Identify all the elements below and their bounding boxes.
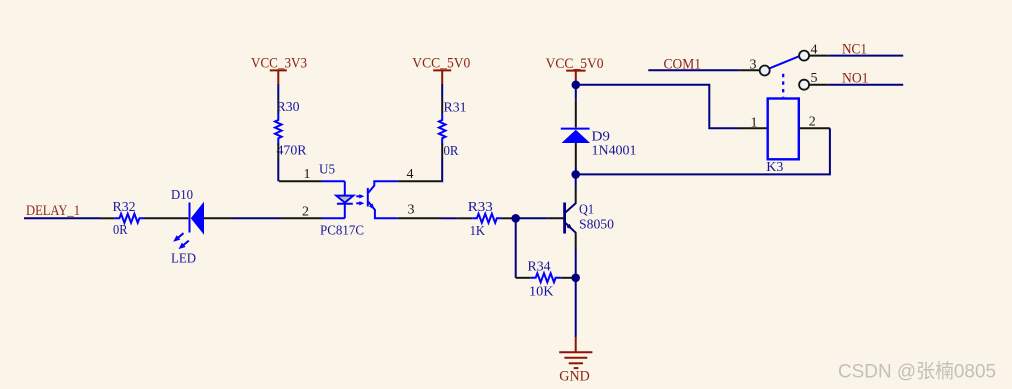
- svg-text:LED: LED: [171, 251, 196, 266]
- svg-text:S8050: S8050: [579, 218, 614, 233]
- svg-text:470R: 470R: [277, 144, 308, 159]
- svg-text:4: 4: [407, 167, 414, 182]
- switch blade: [770, 56, 800, 68]
- wire VCC_3V3 to R30: [277, 84, 279, 99]
- svg-text:VCC_5V0: VCC_5V0: [412, 55, 470, 71]
- LED D10 emission arrows: [178, 233, 184, 238]
- svg-text:2: 2: [302, 205, 309, 220]
- svg-text:0R: 0R: [113, 223, 128, 238]
- wire VCC_5V0 to R31: [441, 84, 443, 99]
- svg-text:3: 3: [408, 203, 415, 218]
- svg-text:R34: R34: [528, 260, 551, 275]
- wire VCC junction to relay pin1: [576, 85, 739, 128]
- wire D10 to U5 pin2: [233, 217, 280, 219]
- svg-text:VCC_5V0: VCC_5V0: [546, 56, 604, 72]
- relay pin 5: [809, 84, 828, 86]
- wire U5 pin4 to R31: [441, 159, 442, 182]
- resistor R34: [516, 277, 531, 279]
- svg-text:PC817C: PC817C: [320, 224, 364, 239]
- relay K3 pin 2: [799, 127, 830, 129]
- relay K3 pin 1: [739, 127, 768, 129]
- relay pin 4: [809, 55, 828, 57]
- svg-text:1: 1: [751, 116, 758, 131]
- svg-text:VCC_3V3: VCC_3V3: [251, 55, 307, 71]
- node base junction: [511, 214, 520, 223]
- svg-text:D10: D10: [171, 188, 193, 203]
- wire R30 to U5 pin1: [277, 159, 279, 182]
- node VCC junction: [572, 81, 581, 90]
- switch NO terminal: [799, 80, 809, 90]
- svg-text:3: 3: [750, 58, 757, 73]
- wire DELAY_1 to R32: [24, 217, 100, 219]
- svg-text:U5: U5: [319, 163, 335, 178]
- switch NC terminal: [799, 51, 809, 61]
- op-amp U5 pin 2: [280, 217, 322, 219]
- svg-text:R31: R31: [444, 101, 467, 116]
- resistor R33: [457, 217, 472, 219]
- svg-text:K3: K3: [766, 160, 783, 175]
- svg-text:CSDN @张楠0805: CSDN @张楠0805: [838, 361, 996, 383]
- svg-text:GND: GND: [559, 369, 590, 385]
- node D9 anode junction: [571, 170, 580, 179]
- wire junction to Q1 base: [516, 217, 548, 219]
- resistor R30: [277, 99, 279, 114]
- wire NO1: [828, 84, 903, 86]
- transistor Q1: [563, 203, 566, 234]
- wire NC1: [828, 55, 903, 57]
- svg-text:1: 1: [304, 167, 311, 182]
- svg-text:NC1: NC1: [842, 42, 867, 58]
- svg-text:10K: 10K: [529, 284, 554, 299]
- svg-text:D9: D9: [592, 130, 611, 145]
- wire junction down to R34: [515, 218, 517, 277]
- svg-text:1K: 1K: [470, 224, 486, 239]
- relay actuator dotted line: [782, 74, 784, 98]
- op-amp U5 pin 3: [397, 217, 441, 219]
- svg-text:NO1: NO1: [842, 71, 869, 87]
- op-amp U5 optocoupler body: [344, 181, 346, 218]
- svg-text:R30: R30: [277, 100, 300, 115]
- wire U5 pin3 to R33: [442, 217, 458, 219]
- svg-text:R32: R32: [113, 200, 136, 215]
- svg-text:R33: R33: [468, 200, 493, 215]
- svg-text:1N4001: 1N4001: [592, 143, 637, 158]
- wire relay pin2 to D9 anode: [576, 128, 830, 174]
- resistor R31: [441, 99, 443, 114]
- svg-text:2: 2: [809, 115, 816, 130]
- op-amp U5 pin 1: [279, 180, 322, 182]
- relay K3 coil: [768, 99, 799, 160]
- diode D9: [575, 99, 577, 127]
- svg-text:Q1: Q1: [579, 202, 594, 217]
- LED D10: [189, 203, 191, 233]
- svg-text:DELAY_1: DELAY_1: [26, 203, 80, 219]
- ground GND: [575, 337, 577, 352]
- node emitter junction: [571, 274, 580, 283]
- resistor R32: [100, 217, 114, 219]
- relay pin 3: [740, 69, 760, 71]
- op-amp U5 pin 4: [397, 180, 441, 182]
- wire COM1: [648, 69, 739, 71]
- svg-text:0R: 0R: [444, 144, 460, 159]
- switch common terminal: [760, 66, 770, 76]
